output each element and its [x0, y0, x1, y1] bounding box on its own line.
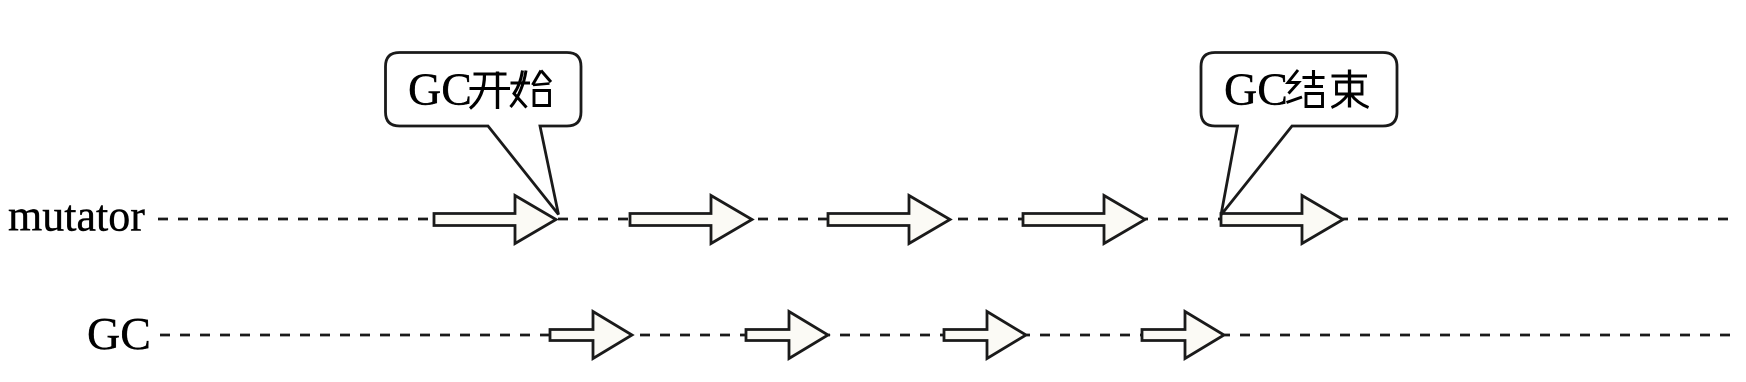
GC arrow G4	[1142, 312, 1224, 359]
callout bubble GC-end	[1201, 53, 1397, 216]
svg-text:GC: GC	[87, 308, 151, 359]
GC arrow G3	[944, 312, 1026, 359]
svg-text:mutator: mutator	[8, 192, 145, 241]
glyph 始 (shi)	[511, 71, 552, 108]
mutator arrow M4	[1023, 196, 1145, 244]
callout bubble GC-start	[386, 53, 582, 215]
GC timeline dashed wire	[160, 334, 1738, 337]
GC arrow G2	[746, 312, 828, 359]
glyph 束 (shu)	[1332, 70, 1369, 108]
glyph 开 (kai)	[470, 72, 511, 110]
mutator arrow M1	[434, 196, 556, 244]
glyph 结 (jie)	[1287, 70, 1325, 107]
svg-text:GC: GC	[408, 64, 472, 115]
mutator arrow M5	[1221, 196, 1343, 244]
mutator timeline dashed wire	[158, 218, 1728, 221]
mutator arrow M3	[828, 196, 950, 244]
GC arrow G1	[550, 312, 632, 359]
svg-text:GC: GC	[1224, 64, 1288, 115]
mutator arrow M2	[630, 196, 752, 244]
